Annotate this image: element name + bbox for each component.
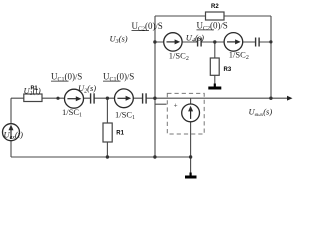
wire stub to + terminal of dependent source [155,103,167,105]
wire R3 branch x=214.8 [214,42,216,86]
wire left branch vertical x=155 [154,16,156,157]
capacitor C2 (second row, left) [198,38,202,47]
source 1/SC1 (middle row, left) [65,89,84,108]
node: bottom rail centre [153,155,156,158]
svg-text:R3: R3 [224,67,232,73]
wire dependent source vertical x=190.6 [190,98,192,175]
resistor R3 [210,58,219,75]
label Uc1(0)/S (left) [51,72,82,84]
node: bottom rail at R1 [106,155,109,158]
svg-text:U4(s): U4(s) [186,33,204,45]
svg-text:+: + [174,102,178,110]
svg-text:1/SC2: 1/SC2 [229,50,249,62]
node: middle row after R1 series [56,97,59,100]
svg-text:1/SC2: 1/SC2 [169,50,189,62]
wire output stub [271,97,289,99]
svg-text:1/SC1: 1/SC1 [62,107,82,119]
capacitor C1 (middle row, left) [91,93,95,103]
svg-text:1/SC1: 1/SC1 [115,110,135,122]
svg-text:R2: R2 [211,4,219,10]
source 1/SC2 (second row, right) [224,33,243,52]
wire bottom rail y=157 [11,156,191,158]
resistor R1 (series, left) [24,94,42,102]
svg-text:U3(s): U3(s) [110,34,128,46]
ground at bottom rail [185,173,197,178]
wire left vertical x=11 [10,98,12,157]
capacitor C2 (second row, right) [256,38,260,47]
node: output [269,97,272,100]
wire middle row y=98.2 [11,97,271,99]
label Uc2(0)/S (under R2) [197,20,228,32]
node: R3 tap on second row [213,40,216,43]
wire R1 branch x=107.4 [106,98,108,157]
label Uc1(0)/S (right) [103,72,134,84]
resistor R2 [206,12,225,20]
node: R1 shunt tap [106,97,109,100]
resistor R1 (shunt) [103,123,112,142]
wire top rail y=16 [155,15,271,17]
node: top-left of second row [153,40,156,43]
input source Uvx [3,124,20,141]
svg-text:R1: R1 [116,131,124,137]
node: second row right [269,40,272,43]
dependent source (in dashed box) [182,104,200,122]
source 1/SC2 (second row, left) [164,33,182,51]
node: bottom rail at ground [189,155,192,158]
svg-text:Uвых(s): Uвых(s) [249,107,273,119]
svg-text:R1: R1 [31,86,38,92]
wire second row y=42 [155,41,271,43]
ground under R3 [208,84,221,89]
svg-text:U2(s): U2(s) [78,83,96,95]
output terminal arrowhead [287,96,293,101]
wire right vertical x=271 [270,16,272,98]
dashed box of dependent source [167,93,204,134]
node: middle row centre [153,97,156,100]
capacitor C1 (middle row, right) [143,93,147,103]
label Uc2(0)/S (top-left) [132,21,163,33]
source 1/SC1 (middle row, right) [115,89,134,108]
